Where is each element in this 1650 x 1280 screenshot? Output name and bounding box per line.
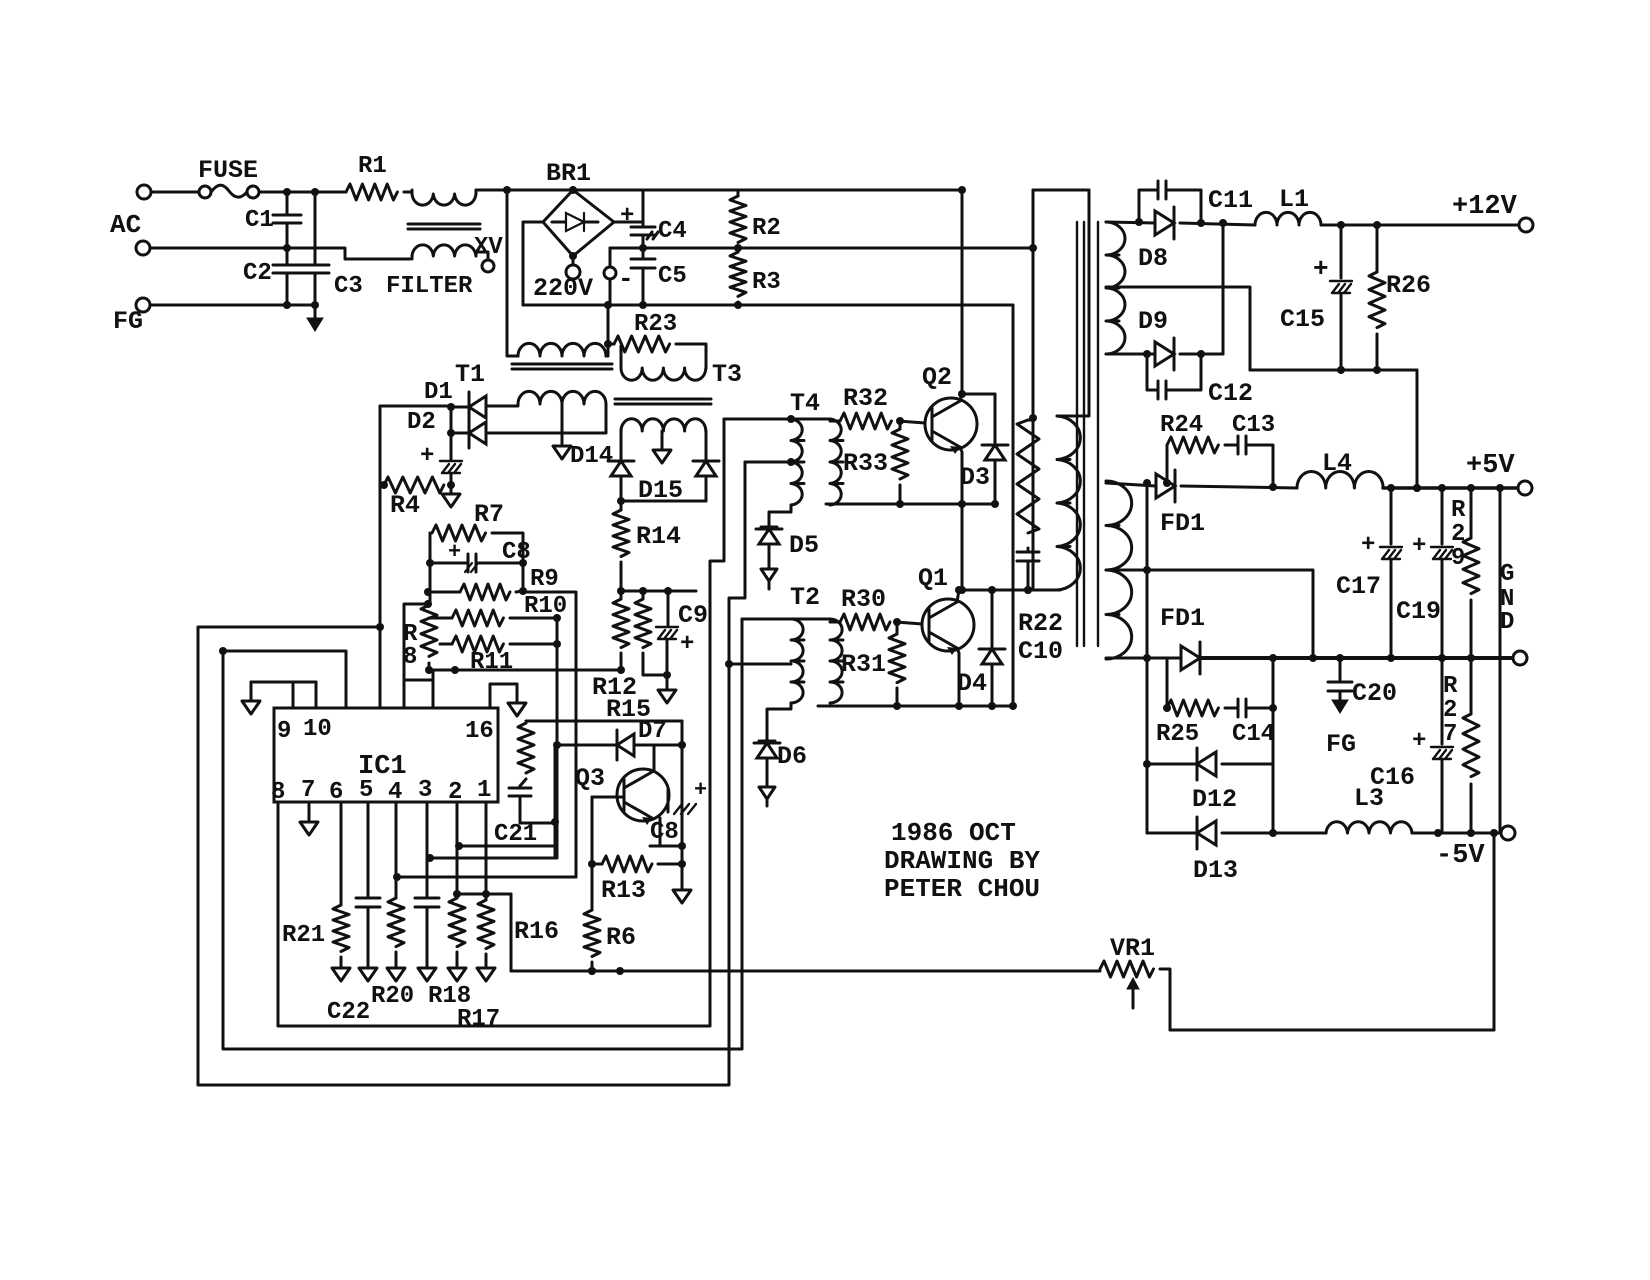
wire top AC to R1 — [283, 188, 346, 196]
svg-text:R33: R33 — [843, 449, 888, 478]
label R13 — [601, 876, 646, 905]
label C9 — [678, 601, 708, 630]
svg-text:C2: C2 — [243, 260, 272, 287]
svg-text:C12: C12 — [1208, 379, 1253, 408]
inductor L3 — [1326, 822, 1412, 833]
transformer T2 right winding — [830, 619, 843, 703]
wire R9 right extension — [523, 592, 576, 877]
wire T1 sec left to D1 — [488, 404, 518, 406]
svg-text:T2: T2 — [790, 583, 820, 612]
wire Q2 collector feed — [958, 186, 966, 394]
label R29 — [1451, 497, 1466, 572]
label FD1b — [1160, 604, 1205, 633]
label C15 plus — [1313, 254, 1329, 284]
node +12V terminal — [1519, 218, 1533, 232]
potentiometer VR1 — [1100, 961, 1170, 1030]
svg-text:C3: C3 — [334, 273, 363, 300]
label R3 — [752, 269, 781, 296]
label C5 — [658, 263, 687, 290]
svg-text:R26: R26 — [1386, 271, 1431, 300]
label VR1 — [1110, 934, 1155, 963]
label R17 — [457, 1006, 500, 1033]
resistor R30 — [830, 614, 922, 630]
label C8b plus — [694, 778, 707, 803]
label Q3 — [575, 764, 605, 793]
svg-text:C8: C8 — [502, 539, 531, 566]
label R27 — [1443, 673, 1458, 748]
label L4 — [1322, 449, 1352, 478]
svg-text:C10: C10 — [1018, 637, 1063, 666]
label R18 — [428, 983, 471, 1010]
diode D7 — [553, 730, 686, 760]
wire T1 primary right — [604, 305, 612, 356]
wire R15 top — [526, 720, 682, 723]
label C8b — [650, 819, 679, 846]
label caption line2 — [884, 846, 1040, 876]
wire T2 bottom to D6 — [767, 703, 791, 741]
node AC terminal (line) — [136, 185, 151, 255]
svg-text:VR1: VR1 — [1110, 934, 1155, 963]
svg-text:R11: R11 — [470, 649, 513, 676]
ground pin16 link — [508, 684, 526, 716]
svg-text:R14: R14 — [636, 522, 681, 551]
resistor R21 — [333, 802, 349, 966]
diode D1 — [447, 392, 486, 422]
diode D3 — [982, 394, 1008, 508]
svg-text:R17: R17 — [457, 1006, 500, 1033]
svg-text:BR1: BR1 — [546, 159, 591, 188]
inductor FILTER top winding — [412, 190, 476, 205]
pin 8 — [271, 779, 285, 806]
transformer T3 core — [615, 399, 711, 404]
svg-text:R13: R13 — [601, 876, 646, 905]
wire BR1 left loop — [523, 222, 543, 305]
wire sec5 top — [1106, 479, 1156, 487]
svg-text:FILTER: FILTER — [386, 273, 473, 300]
svg-text:C22: C22 — [327, 999, 370, 1026]
transformer T1 primary — [518, 343, 606, 356]
label R7 — [474, 500, 504, 529]
label C19 — [1396, 597, 1441, 626]
wire sec12 tap — [1106, 287, 1250, 370]
ground above IC — [242, 682, 260, 714]
svg-text:3: 3 — [418, 777, 432, 804]
capacitor C+ on D node — [440, 407, 462, 489]
wire Q2 emitter — [958, 447, 966, 508]
pin 9 — [277, 718, 291, 745]
ground C9 — [658, 690, 676, 703]
label R26 — [1386, 271, 1431, 300]
resistor R3 — [730, 248, 746, 309]
svg-text:D5: D5 — [789, 531, 819, 560]
svg-text:PETER CHOU: PETER CHOU — [884, 874, 1040, 904]
svg-text:R23: R23 — [634, 311, 677, 338]
svg-text:T4: T4 — [790, 389, 820, 418]
svg-text:FG: FG — [1326, 730, 1356, 759]
pin 7 — [301, 777, 315, 804]
wire VR1 wiper — [1127, 978, 1139, 1008]
label D8 — [1138, 244, 1168, 273]
wire Q3 emitter link — [650, 818, 682, 846]
transformer T3 secondary — [621, 419, 706, 431]
wire cluster left column — [424, 533, 434, 608]
wire xfmr left line — [1029, 190, 1037, 590]
wire R7 right column — [492, 533, 527, 595]
wire VR1 feed — [511, 967, 1100, 975]
label R30 — [841, 585, 886, 614]
label C19 plus — [1412, 533, 1426, 560]
svg-text:C13: C13 — [1232, 412, 1275, 439]
svg-text:1: 1 — [477, 777, 491, 804]
transformer sec5 winding — [1106, 481, 1132, 659]
transformer T4 left winding — [791, 419, 804, 505]
wire D15 loop — [621, 500, 706, 503]
svg-text:C14: C14 — [1232, 721, 1275, 748]
svg-text:C5: C5 — [658, 263, 687, 290]
svg-text:R3: R3 — [752, 269, 781, 296]
wire R12 top row — [621, 587, 696, 595]
svg-text:Q2: Q2 — [922, 363, 952, 392]
label D5 — [789, 531, 819, 560]
transformer FILTER core — [408, 224, 480, 229]
op-amp IC1 box — [274, 708, 498, 802]
wire R10 right column — [556, 618, 559, 858]
node GND terminal — [1513, 651, 1527, 665]
svg-text:2: 2 — [1451, 521, 1465, 548]
wire pin1 column — [482, 802, 490, 900]
wire C21 node column — [554, 745, 557, 858]
node +5V terminal — [1518, 481, 1532, 495]
ground R20 — [387, 968, 405, 981]
ground T1 center tap — [553, 404, 571, 459]
wire Q2 collector link — [958, 390, 995, 401]
wire filter to T1 — [503, 186, 518, 356]
wire T2 tap — [725, 660, 791, 668]
svg-text:C17: C17 — [1336, 572, 1381, 601]
svg-text:16: 16 — [465, 718, 494, 745]
svg-text:Q3: Q3 — [575, 764, 605, 793]
capacitor C2 — [273, 248, 301, 305]
svg-text:R32: R32 — [843, 384, 888, 413]
label T1 — [455, 360, 485, 389]
svg-text:2: 2 — [448, 779, 462, 806]
svg-text:+: + — [620, 203, 634, 230]
wire +5V rail — [1383, 484, 1518, 492]
pin 1 — [477, 777, 491, 804]
wire BR1 right to top — [614, 190, 643, 222]
resistor R12b — [635, 591, 671, 679]
label C13 — [1232, 412, 1275, 439]
wire Q3 collector — [653, 745, 656, 770]
wire D7 right column — [678, 721, 686, 888]
resistor R7 — [432, 525, 486, 541]
svg-text:XV: XV — [474, 234, 503, 261]
label Q1 — [918, 564, 948, 593]
resistor R18 — [449, 802, 465, 966]
wire VR1 bottom — [1170, 833, 1494, 1030]
svg-text:D12: D12 — [1192, 785, 1237, 814]
label C22 — [327, 999, 370, 1026]
label D1 — [424, 379, 453, 406]
diode FD1b — [1181, 642, 1200, 674]
pin 3 — [418, 777, 432, 804]
wire FD1 snubber link — [1143, 483, 1151, 662]
wire outer box — [198, 462, 745, 1085]
wire bottom rail — [523, 301, 1013, 309]
ground R18 — [448, 968, 466, 981]
svg-text:D14: D14 — [570, 443, 613, 470]
transformer T1 secondary — [518, 391, 606, 404]
svg-text:R4: R4 — [390, 491, 420, 520]
svg-text:FUSE: FUSE — [198, 156, 258, 185]
svg-text:D7: D7 — [638, 718, 667, 745]
resistor R33 — [892, 421, 908, 508]
svg-text:+: + — [1313, 254, 1329, 284]
svg-text:R9: R9 — [530, 566, 559, 593]
capacitor C16 — [1431, 658, 1453, 833]
wire T2 top — [742, 618, 830, 621]
resistor R10 — [429, 610, 561, 626]
transformer T3 primary — [621, 346, 706, 380]
label C16 — [1370, 763, 1415, 792]
wire xfmr top — [1033, 189, 1089, 192]
svg-text:D6: D6 — [777, 742, 807, 771]
svg-text:C20: C20 — [1352, 679, 1397, 708]
svg-text:R30: R30 — [841, 585, 886, 614]
wire Q1 emitter — [955, 648, 963, 710]
svg-text:+: + — [420, 443, 434, 470]
capacitor C9 — [656, 591, 678, 690]
svg-text:1986 OCT: 1986 OCT — [891, 818, 1016, 848]
svg-text:C11: C11 — [1208, 186, 1253, 215]
label T4 — [790, 389, 820, 418]
label D6 — [777, 742, 807, 771]
capacitor C12 — [1143, 350, 1205, 399]
capacitor C1 — [273, 192, 301, 252]
label C20 — [1352, 679, 1397, 708]
ground pin1 column — [477, 968, 495, 981]
svg-text:7: 7 — [1443, 721, 1457, 748]
capacitor C8b — [668, 790, 696, 814]
label FUSE — [198, 156, 258, 185]
capacitor C13 — [1238, 436, 1273, 487]
bridge rectifier BR1 — [543, 186, 614, 260]
diode D8 — [1155, 207, 1255, 239]
diode D2 — [447, 418, 486, 448]
node 220V terminal — [566, 256, 580, 279]
label T2 — [790, 583, 820, 612]
svg-text:C8: C8 — [650, 819, 679, 846]
label C1 — [245, 207, 274, 234]
label FD1a — [1160, 509, 1205, 538]
wire 12V return drop — [1413, 370, 1421, 492]
svg-text:+: + — [1412, 533, 1426, 560]
pin 6 — [329, 779, 343, 806]
label GND — [1500, 561, 1514, 636]
svg-text:C4: C4 — [658, 218, 687, 245]
pin 10 — [303, 716, 332, 743]
svg-text:9: 9 — [1451, 545, 1465, 572]
label C3 — [334, 273, 363, 300]
svg-text:+: + — [1412, 728, 1426, 755]
svg-text:+5V: +5V — [1466, 451, 1515, 481]
svg-text:L4: L4 — [1322, 449, 1352, 478]
wire middle box — [223, 619, 742, 1049]
inductor L1 — [1255, 212, 1321, 225]
svg-text:C15: C15 — [1280, 305, 1325, 334]
svg-text:+: + — [694, 778, 707, 803]
label R4 — [390, 491, 420, 520]
diode D12 — [1143, 748, 1273, 780]
svg-text:DRAWING BY: DRAWING BY — [884, 846, 1040, 876]
wire D12 left column — [1146, 658, 1149, 764]
wire negative rail drop — [1012, 305, 1015, 706]
inductor FILTER bottom winding — [412, 245, 476, 259]
wire T4 tap — [745, 458, 795, 466]
capacitor C20 — [1328, 658, 1352, 713]
label C4 plus — [620, 203, 634, 230]
capacitor C8 — [430, 554, 523, 572]
capacitor C5 — [631, 248, 655, 309]
svg-text:Q1: Q1 — [918, 564, 948, 593]
resistor R26 — [1369, 225, 1385, 370]
svg-text:R24: R24 — [1160, 412, 1203, 439]
wire D13 left — [1146, 764, 1149, 833]
node -5V terminal — [1501, 826, 1515, 840]
resistor R8 — [421, 605, 437, 656]
diode FD1a — [1156, 470, 1297, 502]
svg-text:L1: L1 — [1279, 185, 1309, 214]
label -5V — [1436, 841, 1485, 871]
label R9 — [530, 566, 559, 593]
label R15 — [606, 695, 651, 724]
wire C21 to node — [520, 818, 559, 826]
wire node to pin2 — [455, 842, 555, 850]
svg-text:C19: C19 — [1396, 597, 1441, 626]
wire mid rail — [610, 244, 1033, 252]
label C10 — [1018, 637, 1063, 666]
label FG — [113, 307, 143, 336]
wire pin7 ground — [300, 802, 318, 835]
label +5V — [1466, 451, 1515, 481]
svg-text:-5V: -5V — [1436, 841, 1485, 871]
transistor Q3 — [617, 769, 669, 825]
label C17 plus — [1361, 532, 1375, 559]
capacitor C21 — [509, 779, 531, 823]
label XV — [474, 234, 503, 261]
label D2 — [407, 409, 436, 436]
capacitor C11 — [1139, 181, 1201, 223]
fuse FUSE — [151, 185, 287, 198]
resistor R9 — [428, 584, 523, 600]
resistor R6 — [584, 910, 600, 975]
label R14 — [636, 522, 681, 551]
capacitor C22 — [356, 802, 380, 966]
label R21 — [282, 922, 325, 949]
svg-text:+: + — [680, 631, 694, 658]
label 220V — [533, 274, 593, 303]
inductor L4 — [1297, 471, 1383, 488]
svg-text:R1: R1 — [358, 153, 387, 180]
label Q2 — [922, 363, 952, 392]
diode D4 — [979, 586, 1005, 710]
wire sec5 bottom — [1106, 657, 1181, 660]
wire 12V return rail — [1250, 366, 1417, 374]
svg-text:FD1: FD1 — [1160, 604, 1205, 633]
label caption line1 — [891, 818, 1016, 848]
svg-text:R7: R7 — [474, 500, 504, 529]
capacitor C14 — [1238, 658, 1273, 717]
resistor R23 — [608, 336, 706, 368]
svg-text:D1: D1 — [424, 379, 453, 406]
label +12V — [1452, 192, 1518, 222]
wire inner box — [278, 419, 724, 1026]
svg-text:+12V: +12V — [1452, 192, 1518, 222]
svg-text:D9: D9 — [1138, 307, 1168, 336]
wire above IC pins 9-10 — [251, 682, 316, 708]
svg-text:R: R — [1451, 497, 1466, 524]
label D7 — [638, 718, 667, 745]
svg-text:D13: D13 — [1193, 856, 1238, 885]
label R1 — [358, 153, 387, 180]
wire node to pin3 — [426, 854, 555, 862]
svg-text:10: 10 — [303, 716, 332, 743]
diode D6 — [754, 741, 780, 806]
svg-text:FD1: FD1 — [1160, 509, 1205, 538]
label R23 — [634, 311, 677, 338]
label R8 — [403, 621, 418, 671]
label FILTER — [386, 273, 473, 300]
resistor R27 — [1463, 658, 1479, 833]
label C14 — [1232, 721, 1275, 748]
svg-text:5: 5 — [359, 777, 373, 804]
capacitor C3 — [301, 192, 329, 305]
wire T1 sec right to D2 — [488, 404, 606, 433]
resistor R22 — [1017, 420, 1039, 550]
label C9 plus — [680, 631, 694, 658]
svg-text:R31: R31 — [841, 650, 886, 679]
svg-text:R10: R10 — [524, 593, 567, 620]
node FG terminal — [136, 298, 150, 312]
resistor R12a — [613, 591, 629, 670]
svg-text:R: R — [1443, 673, 1458, 700]
label R25 — [1156, 721, 1199, 748]
wire R8 bottom row — [425, 663, 625, 674]
label D12 — [1192, 785, 1237, 814]
wire sec12 top — [1106, 218, 1155, 226]
label R31 — [841, 650, 886, 679]
wire Q3 base — [592, 796, 624, 799]
transistor Q1 — [922, 599, 974, 655]
diode D13 — [1147, 817, 1326, 849]
ground T3 center tap — [653, 431, 671, 463]
wire cluster to IC pins — [404, 604, 433, 708]
wire Q2 to Q1 link — [958, 504, 966, 594]
resistor R29 — [1463, 488, 1479, 658]
transformer sec12 winding — [1106, 222, 1125, 354]
svg-text:R20: R20 — [371, 983, 414, 1010]
diode D14 — [608, 431, 634, 505]
ground FG arrow — [307, 305, 323, 331]
svg-text:R6: R6 — [606, 923, 636, 952]
label C21 — [494, 821, 537, 848]
wire -5V rail — [1412, 829, 1501, 837]
label R32 — [843, 384, 888, 413]
capacitor C18 — [415, 802, 439, 966]
wire AC middle — [150, 248, 410, 259]
ground D7 column — [673, 890, 691, 903]
resistor R20 — [388, 802, 404, 966]
